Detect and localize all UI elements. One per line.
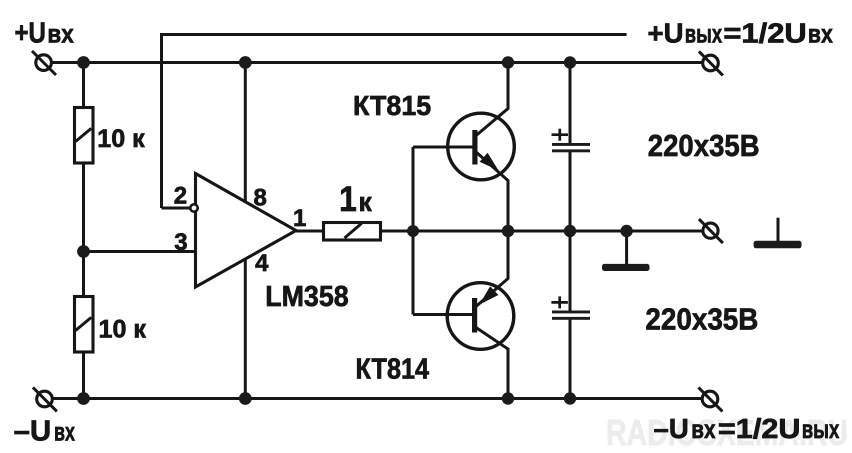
Q1 emitter arrow [480,153,499,171]
svg-text:LM358: LM358 [265,281,349,313]
wire op-amp output to R3 [296,230,324,233]
svg-text:вх: вх [808,19,833,49]
wire pin 4 to bottom rail [244,259,247,399]
Q1 body circle [448,113,515,180]
ground symbol right: bar [754,241,802,249]
wire feedback top horizontal [162,33,627,36]
ground bar mid [602,264,650,271]
wire -V bottom rail [52,397,703,400]
op-amp inverting input circle pin2 [190,204,197,211]
svg-text:вх: вх [54,417,75,447]
junction Q2 collector / bottom rail [502,392,514,404]
junction Q1 emitter / mid rail [502,225,514,237]
Q1 collector lead [476,63,509,137]
label +Uвх [15,18,75,50]
wire R1 to R2 through node [82,161,85,298]
C2 top lead [569,231,572,311]
label 1к [339,180,372,219]
svg-text:+U: +U [15,18,46,50]
junction C2 / bottom rail [564,392,576,404]
svg-text:220х35В: 220х35В [648,128,760,163]
C1 bottom lead [569,152,572,232]
svg-text:к: к [359,187,373,217]
op-amp U1 LM358 [196,174,297,288]
wire op-amp pin 2 input [162,207,191,210]
Q1 base bar [472,130,477,165]
C1 top plate [552,143,590,146]
svg-text:=1/2U: =1/2U [718,413,801,444]
svg-text:=1/2U: =1/2U [723,18,806,49]
wire Q1 KT815 base [413,146,473,149]
terminal -Uvx bottom-left [33,387,57,411]
junction Q1 collector / top rail [502,56,514,68]
capacitor C1 220x35V [552,63,591,232]
svg-text:вх: вх [47,19,74,49]
junction node divider midpoint [77,245,90,258]
svg-text:10 к: 10 к [97,125,145,153]
svg-text:–U: –U [654,413,689,444]
wire mid output rail [380,230,703,233]
transistor Q2 KT814 [447,231,514,399]
terminal +Uvx top-left [32,51,56,75]
svg-text:КТ814: КТ814 [356,354,430,386]
svg-text:1: 1 [293,205,306,232]
junction C1 / top rail [564,56,576,68]
C1 top lead [569,63,572,144]
terminal +Uvyh top-right [699,51,723,75]
svg-text:вх: вх [691,414,716,444]
svg-text:8: 8 [254,185,267,212]
label +Uвых=1/2Uвх [648,18,834,49]
svg-text:вых: вых [802,414,840,444]
svg-text:вых: вых [685,19,723,49]
Q2 body circle [447,283,514,350]
resistor R2 10k [75,297,94,353]
junction pin4/bottom rail [239,392,252,405]
C2 bottom plate [552,317,590,320]
wire pin 8 from top rail [244,63,247,204]
ground symbol right: stem [777,218,780,242]
Q2 base bar [472,298,477,333]
C2 top plate [552,311,590,314]
C2 bottom lead [569,319,572,399]
wire R2 to bottom rail [82,351,85,399]
wire left divider: rail to R1 [82,63,85,110]
Q2 collector lead [476,328,508,399]
wire +V top rail [51,61,703,64]
junction node rail/R1 [77,56,90,69]
svg-text:–U: –U [14,416,52,448]
C2 plus sign [551,301,568,304]
svg-text:1: 1 [339,180,357,219]
resistor R1 10k [75,108,94,164]
wire ground drop from mid rail [625,231,628,264]
junction feedback-ground / mid rail [620,225,632,237]
svg-text:2: 2 [174,183,187,210]
wire feedback left vertical [160,33,163,208]
C1 plus sign [552,133,569,136]
svg-text:220х35В: 220х35В [645,302,758,337]
label -Uвх=1/2Uвых [654,413,840,444]
svg-text:КТ815: КТ815 [353,90,431,121]
Q2 emitter arrow [480,286,499,304]
capacitor C2 220x35V [551,231,590,399]
junction C1 C2 / mid rail [564,225,576,237]
resistor R3 1k [324,223,381,241]
Q2 emitter lead [476,231,508,307]
junction node R2/bottom rail [77,392,90,405]
C1 bottom plate [552,149,590,152]
svg-text:10 к: 10 к [99,315,147,343]
Q1 emitter lead [476,152,509,232]
svg-text:+U: +U [648,18,684,49]
junction pin8/top rail [239,56,252,69]
wire base bus vertical [412,147,415,315]
svg-text:4: 4 [255,250,269,277]
svg-text:3: 3 [174,229,187,256]
wire op-amp pin 3 input [84,250,196,253]
junction base node on mid rail [407,225,419,237]
wire Q2 KT814 base [413,313,473,316]
transistor Q1 KT815 [448,63,515,232]
terminal output common mid-right [699,219,723,243]
label -Uвх [14,416,76,448]
terminal -Uvyh bottom-right [698,387,722,411]
